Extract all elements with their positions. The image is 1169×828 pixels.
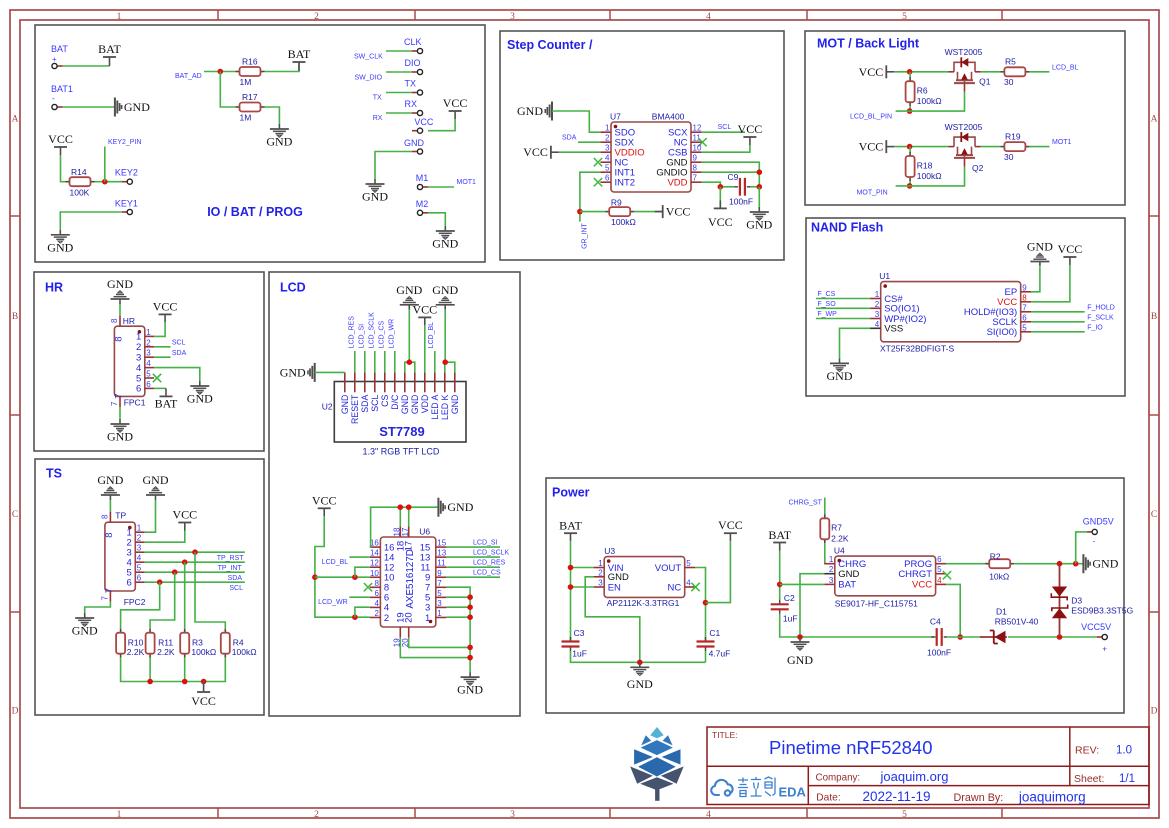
svg-text:6: 6 <box>137 574 142 583</box>
svg-text:7: 7 <box>693 174 698 183</box>
svg-text:VCC: VCC <box>412 302 437 316</box>
U4 pin 3 BAT <box>824 576 856 591</box>
U7 pin 10 CSB <box>668 144 702 159</box>
U2 pin 7 GND <box>400 372 410 414</box>
svg-text:D: D <box>12 707 19 717</box>
junction SDA (TS) <box>172 569 178 575</box>
svg-text:1/1: 1/1 <box>1119 773 1135 785</box>
ground GND (charge status) <box>1083 554 1118 573</box>
junction R11 rail <box>147 679 153 685</box>
wire VCC branch to U6 pin10 <box>315 576 370 578</box>
svg-text:GND: GND <box>746 218 772 232</box>
svg-text:2022-11-19: 2022-11-19 <box>863 789 931 804</box>
FPC1 pin 1 <box>136 328 154 343</box>
svg-text:LCD_SI: LCD_SI <box>359 324 366 349</box>
svg-text:1: 1 <box>425 613 430 624</box>
power flag VCC (TS bottom) <box>191 682 216 708</box>
svg-text:WST2005: WST2005 <box>945 122 983 132</box>
svg-text:5: 5 <box>937 565 942 574</box>
svg-text:6: 6 <box>374 589 379 598</box>
wire BAT1 to GND <box>63 106 115 108</box>
wire LCD_SI to U2 SDA <box>364 351 366 372</box>
wire R17 to GND <box>265 107 280 124</box>
port GND5V <box>1083 517 1114 527</box>
svg-text:GND: GND <box>838 569 859 580</box>
svg-text:LCD_WR: LCD_WR <box>318 599 348 606</box>
svg-text:B: B <box>1151 312 1157 322</box>
svg-text:TS: TS <box>46 467 62 481</box>
U6 pin 17 (top) <box>401 526 415 551</box>
svg-text:GND: GND <box>1027 240 1053 254</box>
wire SW_DIO to DIO <box>386 71 412 73</box>
svg-text:3: 3 <box>510 810 515 820</box>
svg-text:13: 13 <box>437 549 446 558</box>
resistor R5 30 <box>1000 57 1029 88</box>
wire RX <box>386 112 412 114</box>
svg-text:5: 5 <box>137 564 142 573</box>
power flag VCC (CSB) <box>738 122 763 145</box>
resistor R17 1M <box>236 92 265 123</box>
svg-text:TITLE:: TITLE: <box>712 730 738 740</box>
junction BAT/U4 pin3 <box>777 582 783 588</box>
U1 pin 9 EP <box>1005 283 1032 298</box>
wire U7 pin12 to SCL <box>702 131 745 133</box>
svg-text:SCL: SCL <box>172 340 186 347</box>
U6 pin 10 (left) <box>370 569 395 584</box>
svg-text:BAT: BAT <box>51 44 68 54</box>
svg-text:GND5V: GND5V <box>1083 517 1114 527</box>
svg-text:7: 7 <box>110 401 119 406</box>
wire R3 bottom <box>184 658 186 682</box>
wire VDD branch down to VCC flag <box>719 187 721 209</box>
U6 pin 8 (left) <box>370 579 389 594</box>
wire TP_RST junction down to R4 <box>195 552 225 629</box>
svg-text:4: 4 <box>937 576 942 585</box>
svg-text:2: 2 <box>374 609 379 618</box>
wire F_WP to U1 pin3 <box>816 318 870 320</box>
junction pin2/pin4 link <box>352 614 358 620</box>
port BAT1- (battery negative) <box>51 84 73 103</box>
wire U6 pin17 up to rail <box>408 507 410 526</box>
svg-text:R9: R9 <box>611 198 622 208</box>
net label LCD_SI (U2) <box>359 324 366 349</box>
svg-text:GR_INT: GR_INT <box>582 223 589 249</box>
junction pin10/pin12 link <box>352 574 358 580</box>
resistor R18 100kOhm pull-up <box>906 152 942 181</box>
wire bridge U2 pin7-pin8 <box>405 362 415 372</box>
ground GND (KEY1) <box>47 230 73 255</box>
net label F_CS <box>817 291 835 298</box>
svg-text:4: 4 <box>146 359 151 368</box>
resistor R6 100kOhm pull-up <box>906 77 942 106</box>
svg-text:8: 8 <box>104 533 115 538</box>
U3 pin 1 VIN <box>594 559 624 574</box>
net label MOT_PIN <box>857 190 888 197</box>
svg-text:2: 2 <box>136 342 141 353</box>
svg-text:SW_DIO: SW_DIO <box>355 75 383 82</box>
svg-text:RB501V-40: RB501V-40 <box>995 617 1039 627</box>
net label MOT1 (MOT box) <box>1052 139 1072 146</box>
wire BAT_AD to R16 <box>204 71 236 73</box>
svg-text:4.7uF: 4.7uF <box>709 649 731 659</box>
wire BAT down (U3 input) <box>570 541 572 641</box>
wire FPC1 pin4 to GND <box>154 368 200 381</box>
svg-text:BAT1: BAT1 <box>51 84 73 94</box>
svg-text:R6: R6 <box>917 86 928 96</box>
wire U7 pin8 GNDIO to rail <box>702 171 760 173</box>
wire BAT_AD down to R17 <box>220 72 235 108</box>
svg-text:SDA: SDA <box>172 350 187 357</box>
svg-text:NC: NC <box>667 582 681 593</box>
svg-text:VCC: VCC <box>312 493 337 507</box>
wire U1 VSS to GND <box>840 328 871 358</box>
wire TX <box>386 92 412 94</box>
svg-text:5: 5 <box>902 12 907 22</box>
FPC1 pin 8 (top) <box>110 316 124 342</box>
net label LCD_RES (U6) <box>473 560 506 567</box>
net label BAT_AD <box>175 73 202 80</box>
svg-text:VOUT: VOUT <box>655 563 682 574</box>
svg-text:SCL: SCL <box>718 124 732 131</box>
svg-text:MOT / Back Light: MOT / Back Light <box>817 37 920 51</box>
wire R19 to MOT1 <box>1029 146 1049 148</box>
svg-text:5: 5 <box>686 559 691 568</box>
svg-text:CS: CS <box>380 394 390 406</box>
port DIO <box>405 58 421 68</box>
svg-text:-: - <box>52 94 55 103</box>
wire U6 pin19 to GND vertical <box>400 638 470 658</box>
wire U6 pin18 up to rail <box>399 507 401 526</box>
svg-text:IO / BAT / PROG: IO / BAT / PROG <box>207 205 303 219</box>
svg-text:VCC: VCC <box>1058 242 1083 256</box>
capacitor C1 4.7uF <box>697 628 731 659</box>
junction pin5 GND <box>467 594 473 600</box>
svg-text:SE9017-HF_C115751: SE9017-HF_C115751 <box>835 599 918 609</box>
svg-text:VCC: VCC <box>666 205 691 219</box>
wire FPC1 pin7 to GND <box>119 407 121 419</box>
svg-text:2: 2 <box>146 338 151 347</box>
svg-text:12: 12 <box>693 124 702 133</box>
svg-text:F_IO: F_IO <box>1087 325 1103 332</box>
resistor R14 100K <box>66 167 95 198</box>
wire U3 VOUT to VCC <box>695 568 705 642</box>
svg-text:TX: TX <box>373 95 382 102</box>
wire U6 pin20 to GND vertical <box>409 638 470 648</box>
port RX <box>405 99 418 109</box>
wire C3 bottom to rail <box>571 651 706 662</box>
resistor R9 100kOhm <box>605 198 636 228</box>
FPC1 pin 7 (bottom) <box>110 394 124 408</box>
U4 pin 6 PROG <box>904 555 946 570</box>
svg-text:BMA400: BMA400 <box>652 112 685 122</box>
wire VCC port to VCC flag <box>428 119 455 131</box>
net label GR_INT <box>582 223 589 249</box>
svg-text:4: 4 <box>374 599 379 608</box>
junction U2 K/GND bridge <box>442 359 448 365</box>
wire M2 to GND <box>428 213 445 226</box>
svg-text:VCC: VCC <box>912 580 932 591</box>
power flag VCC (Q2) <box>859 140 895 154</box>
svg-text:2: 2 <box>314 810 319 820</box>
svg-text:joaquim.org: joaquim.org <box>880 769 949 784</box>
port VCC5V <box>1081 622 1111 632</box>
U7 pin 11 NC <box>674 134 702 149</box>
junction BAT/EN <box>568 584 574 590</box>
svg-text:F_HOLD: F_HOLD <box>1087 305 1115 312</box>
port M2 <box>416 199 429 209</box>
connector U6 AXE516127D body <box>380 527 435 628</box>
svg-text:17: 17 <box>404 541 415 552</box>
no-connect X on U3 pin 4 <box>691 583 699 591</box>
svg-text:VCC: VCC <box>708 215 733 229</box>
connector FPC1 HR sensor body <box>114 316 145 408</box>
wire BAT to U4 pin3 <box>780 583 825 585</box>
svg-text:GND: GND <box>124 100 150 114</box>
svg-text:7: 7 <box>437 579 442 588</box>
net label LCD_WR (U6) <box>318 599 348 606</box>
U1 pin 3 WP#(IO2) <box>870 310 926 325</box>
FPC1 pin 6 <box>136 380 154 395</box>
svg-text:3: 3 <box>829 576 834 585</box>
wire R16 to BAT flag <box>265 62 300 72</box>
U1 pin 5 SI(IO0) <box>987 323 1032 338</box>
svg-text:LCD_SCLK: LCD_SCLK <box>473 550 510 557</box>
wire FPC2 pin7 to GND <box>85 602 111 613</box>
svg-text:3: 3 <box>605 144 610 153</box>
wire GND to U7 pin1 <box>552 111 600 132</box>
svg-text:100kΩ: 100kΩ <box>191 647 216 657</box>
U1 pin 2 SO(IO1) <box>870 300 919 315</box>
svg-text:1uF: 1uF <box>572 649 587 659</box>
power flag BAT (U3) <box>559 519 582 542</box>
svg-text:3: 3 <box>510 12 515 22</box>
svg-text:VDD: VDD <box>667 178 687 189</box>
svg-text:U2: U2 <box>322 402 333 412</box>
net label LCD_BL (U2) <box>428 322 435 349</box>
port KEY2 <box>115 168 138 178</box>
wire link U6 pin4 to pin2 net <box>355 607 370 617</box>
ground GND (FPC1 top) <box>107 277 133 304</box>
wire SCL junction down to R10 <box>121 582 160 629</box>
U3 pin 3 EN <box>594 579 621 594</box>
wire C2 bottom to GND rail <box>780 614 936 637</box>
U7 pin 3 VDDIO <box>600 144 644 159</box>
svg-text:AP2112K-3.3TRG1: AP2112K-3.3TRG1 <box>607 598 680 608</box>
svg-text:XT25F32BDFIGT-S: XT25F32BDFIGT-S <box>880 344 954 354</box>
ground GND (FPC2 pin7) <box>72 613 98 638</box>
wire CHRG_ST to R7 <box>824 498 826 515</box>
connector FPC2 touch panel body <box>105 511 146 608</box>
wire M1 to MOT1 <box>428 186 454 188</box>
wire R2 to GND flag / D3 <box>1014 563 1083 565</box>
svg-text:-: - <box>1093 537 1096 546</box>
svg-text:Q2: Q2 <box>972 163 984 173</box>
FPC2 pin 1 <box>127 524 145 539</box>
svg-text:9: 9 <box>1022 283 1027 292</box>
junction VDD/C9 left <box>718 184 724 190</box>
title block Company row <box>816 769 949 784</box>
svg-text:11: 11 <box>693 134 702 143</box>
junction pin18 rail <box>398 504 404 510</box>
wire U6 pin13 to LCD_SCLK <box>446 556 500 558</box>
capacitor C3 1uF <box>562 628 587 659</box>
U1 pin 1 CS# <box>870 290 903 305</box>
port CLK <box>404 37 422 47</box>
power flag VCC (FPC2 pin2) <box>172 508 197 531</box>
svg-text:VCC: VCC <box>523 145 548 159</box>
svg-text:R19: R19 <box>1005 132 1021 142</box>
net label F_SO <box>817 301 836 308</box>
wire U6 pin7 to GND vertical <box>446 587 470 672</box>
wire Q1 drain to R5 <box>981 71 1001 73</box>
net label KEY2_PIN <box>108 139 141 146</box>
net label CHRG_ST <box>789 500 823 507</box>
svg-text:CHRGT: CHRGT <box>898 569 932 580</box>
svg-text:DIO: DIO <box>405 58 421 68</box>
svg-text:7: 7 <box>114 394 125 399</box>
ground GND (U4) <box>791 637 810 650</box>
wire GND to FPC1 pin8 <box>119 304 121 316</box>
wire SDA to U7 pin2 <box>578 141 600 143</box>
svg-text:10: 10 <box>693 144 702 153</box>
svg-text:1: 1 <box>117 810 122 820</box>
svg-text:C4: C4 <box>930 617 941 627</box>
wire U7 pin9 GND to ground rail <box>702 162 760 187</box>
svg-text:RX: RX <box>405 99 418 109</box>
svg-text:B: B <box>12 312 18 322</box>
junction GND rail (U3) <box>637 660 643 666</box>
svg-text:5: 5 <box>605 164 610 173</box>
svg-text:SDA: SDA <box>228 575 243 582</box>
svg-text:3: 3 <box>137 544 142 553</box>
junction R3 rail <box>182 679 188 685</box>
svg-text:4: 4 <box>686 579 691 588</box>
junction D3 bottom <box>1057 634 1063 640</box>
wire VCC to Q2 source <box>894 146 948 148</box>
svg-text:LCD_SCLK: LCD_SCLK <box>369 312 376 349</box>
FPC1 pin 5 <box>136 370 154 385</box>
svg-text:Step Counter /: Step Counter / <box>507 38 593 52</box>
capacitor C4 100nF <box>927 617 951 658</box>
ground GND (prog) <box>362 179 388 204</box>
svg-text:2: 2 <box>137 534 142 543</box>
wire GR_INT junction to R9 <box>580 211 605 213</box>
net label SCL (TS) <box>229 585 243 592</box>
diode D1 RB501V-40 schottky <box>980 607 1039 644</box>
svg-text:11: 11 <box>437 559 446 568</box>
section box TS <box>35 459 264 715</box>
section box IO / BAT / PROG <box>35 25 485 262</box>
svg-text:LCD_RES: LCD_RES <box>349 316 356 349</box>
wire FPC1 pin3 SDA <box>154 356 170 358</box>
wire C4 to D1 anode <box>947 636 981 638</box>
wire FPC1 pin2 SCL <box>154 346 170 348</box>
wire LCD_BL to U2 LED A <box>434 351 436 372</box>
resistor R2 10kOhm <box>985 552 1014 582</box>
ground GND (U2 pins 7-8, above) <box>396 283 422 310</box>
U6 pin 14 (left) <box>370 549 395 564</box>
wire U6 pin9 to LCD_CS <box>446 576 500 578</box>
svg-text:100kΩ: 100kΩ <box>917 96 942 106</box>
net label TP_RST <box>217 555 245 562</box>
svg-text:KEY1: KEY1 <box>115 199 138 209</box>
svg-text:CLK: CLK <box>404 37 422 47</box>
svg-text:CHRG_ST: CHRG_ST <box>789 500 823 507</box>
svg-text:30: 30 <box>1004 152 1014 162</box>
svg-text:INT2: INT2 <box>615 178 636 189</box>
wire U4 GND pin to rail <box>800 574 824 637</box>
U6 pin 5 (right) <box>425 589 446 604</box>
wire VCC to FPC1 pin1 <box>154 322 165 336</box>
svg-text:6: 6 <box>127 578 132 589</box>
junction D3 top <box>1057 561 1063 567</box>
wire SW_CLK to CLK <box>386 50 412 52</box>
ground GND (U2 pins 11-12, above) <box>432 283 458 310</box>
resistor R19 30 <box>1000 132 1029 163</box>
section box LCD <box>269 272 520 716</box>
svg-text:2: 2 <box>384 613 389 624</box>
svg-text:100kΩ: 100kΩ <box>611 217 636 227</box>
svg-text:C: C <box>12 510 18 520</box>
net label SDA (U7) <box>562 134 577 141</box>
svg-text:GND: GND <box>97 473 123 487</box>
svg-text:GND: GND <box>410 395 420 415</box>
svg-text:1: 1 <box>117 12 122 22</box>
resistor R3 100kOhm <box>180 629 216 658</box>
junction TP_RST <box>192 549 198 555</box>
svg-text:7: 7 <box>1022 303 1027 312</box>
svg-text:D/C: D/C <box>390 394 400 410</box>
svg-text:ESD9B3.3ST5G: ESD9B3.3ST5G <box>1071 606 1133 616</box>
net label SW_CLK <box>354 54 383 61</box>
svg-text:LCD_BL_PIN: LCD_BL_PIN <box>850 114 892 121</box>
junction VCC/R18 <box>907 144 913 150</box>
net label LCD_BL_PIN <box>850 114 892 121</box>
junction VCC/R6 <box>907 69 913 75</box>
wire SDA junction down to R11 <box>150 572 175 629</box>
port TX <box>405 79 417 89</box>
ground GND (BAT1) <box>115 98 150 117</box>
svg-text:MOT_PIN: MOT_PIN <box>857 190 888 197</box>
net label LCD_BL (MOT box) <box>1052 65 1079 72</box>
charger U4 SE9017-HF_C115751 body <box>834 546 936 609</box>
svg-text:LCD: LCD <box>280 281 306 295</box>
wire U6 pin5 to GND vertical <box>446 596 470 598</box>
svg-text:Pinetime nRF52840: Pinetime nRF52840 <box>769 737 933 758</box>
svg-text:2.2K: 2.2K <box>157 647 175 657</box>
svg-text:7: 7 <box>104 588 115 593</box>
net label LCD_CS (U2) <box>379 320 386 348</box>
net label SDA (TS) <box>228 575 243 582</box>
FPC2 pin 2 <box>127 534 145 549</box>
junction GR_INT/R9 <box>577 209 583 215</box>
U6 pin 20 (bottom) <box>401 612 415 647</box>
wire R14 to KEY2 port <box>95 181 123 183</box>
wire LCD_RES to U2 RESET <box>354 351 356 372</box>
svg-text:VCC: VCC <box>153 299 178 313</box>
net label SCL (FPC1) <box>172 340 186 347</box>
svg-text:GND: GND <box>432 237 458 251</box>
wire LCD_BL to U6 pin14 <box>349 556 369 558</box>
FPC2 pin 8 (top) <box>101 512 115 538</box>
svg-text:6: 6 <box>937 555 942 564</box>
wire R9 to VCC flag <box>634 211 662 213</box>
svg-text:M2: M2 <box>416 199 429 209</box>
svg-text:U4: U4 <box>834 546 845 556</box>
ground GND (U1 EP, above) <box>1027 240 1053 267</box>
svg-text:A: A <box>12 115 19 125</box>
svg-text:4: 4 <box>875 320 880 329</box>
